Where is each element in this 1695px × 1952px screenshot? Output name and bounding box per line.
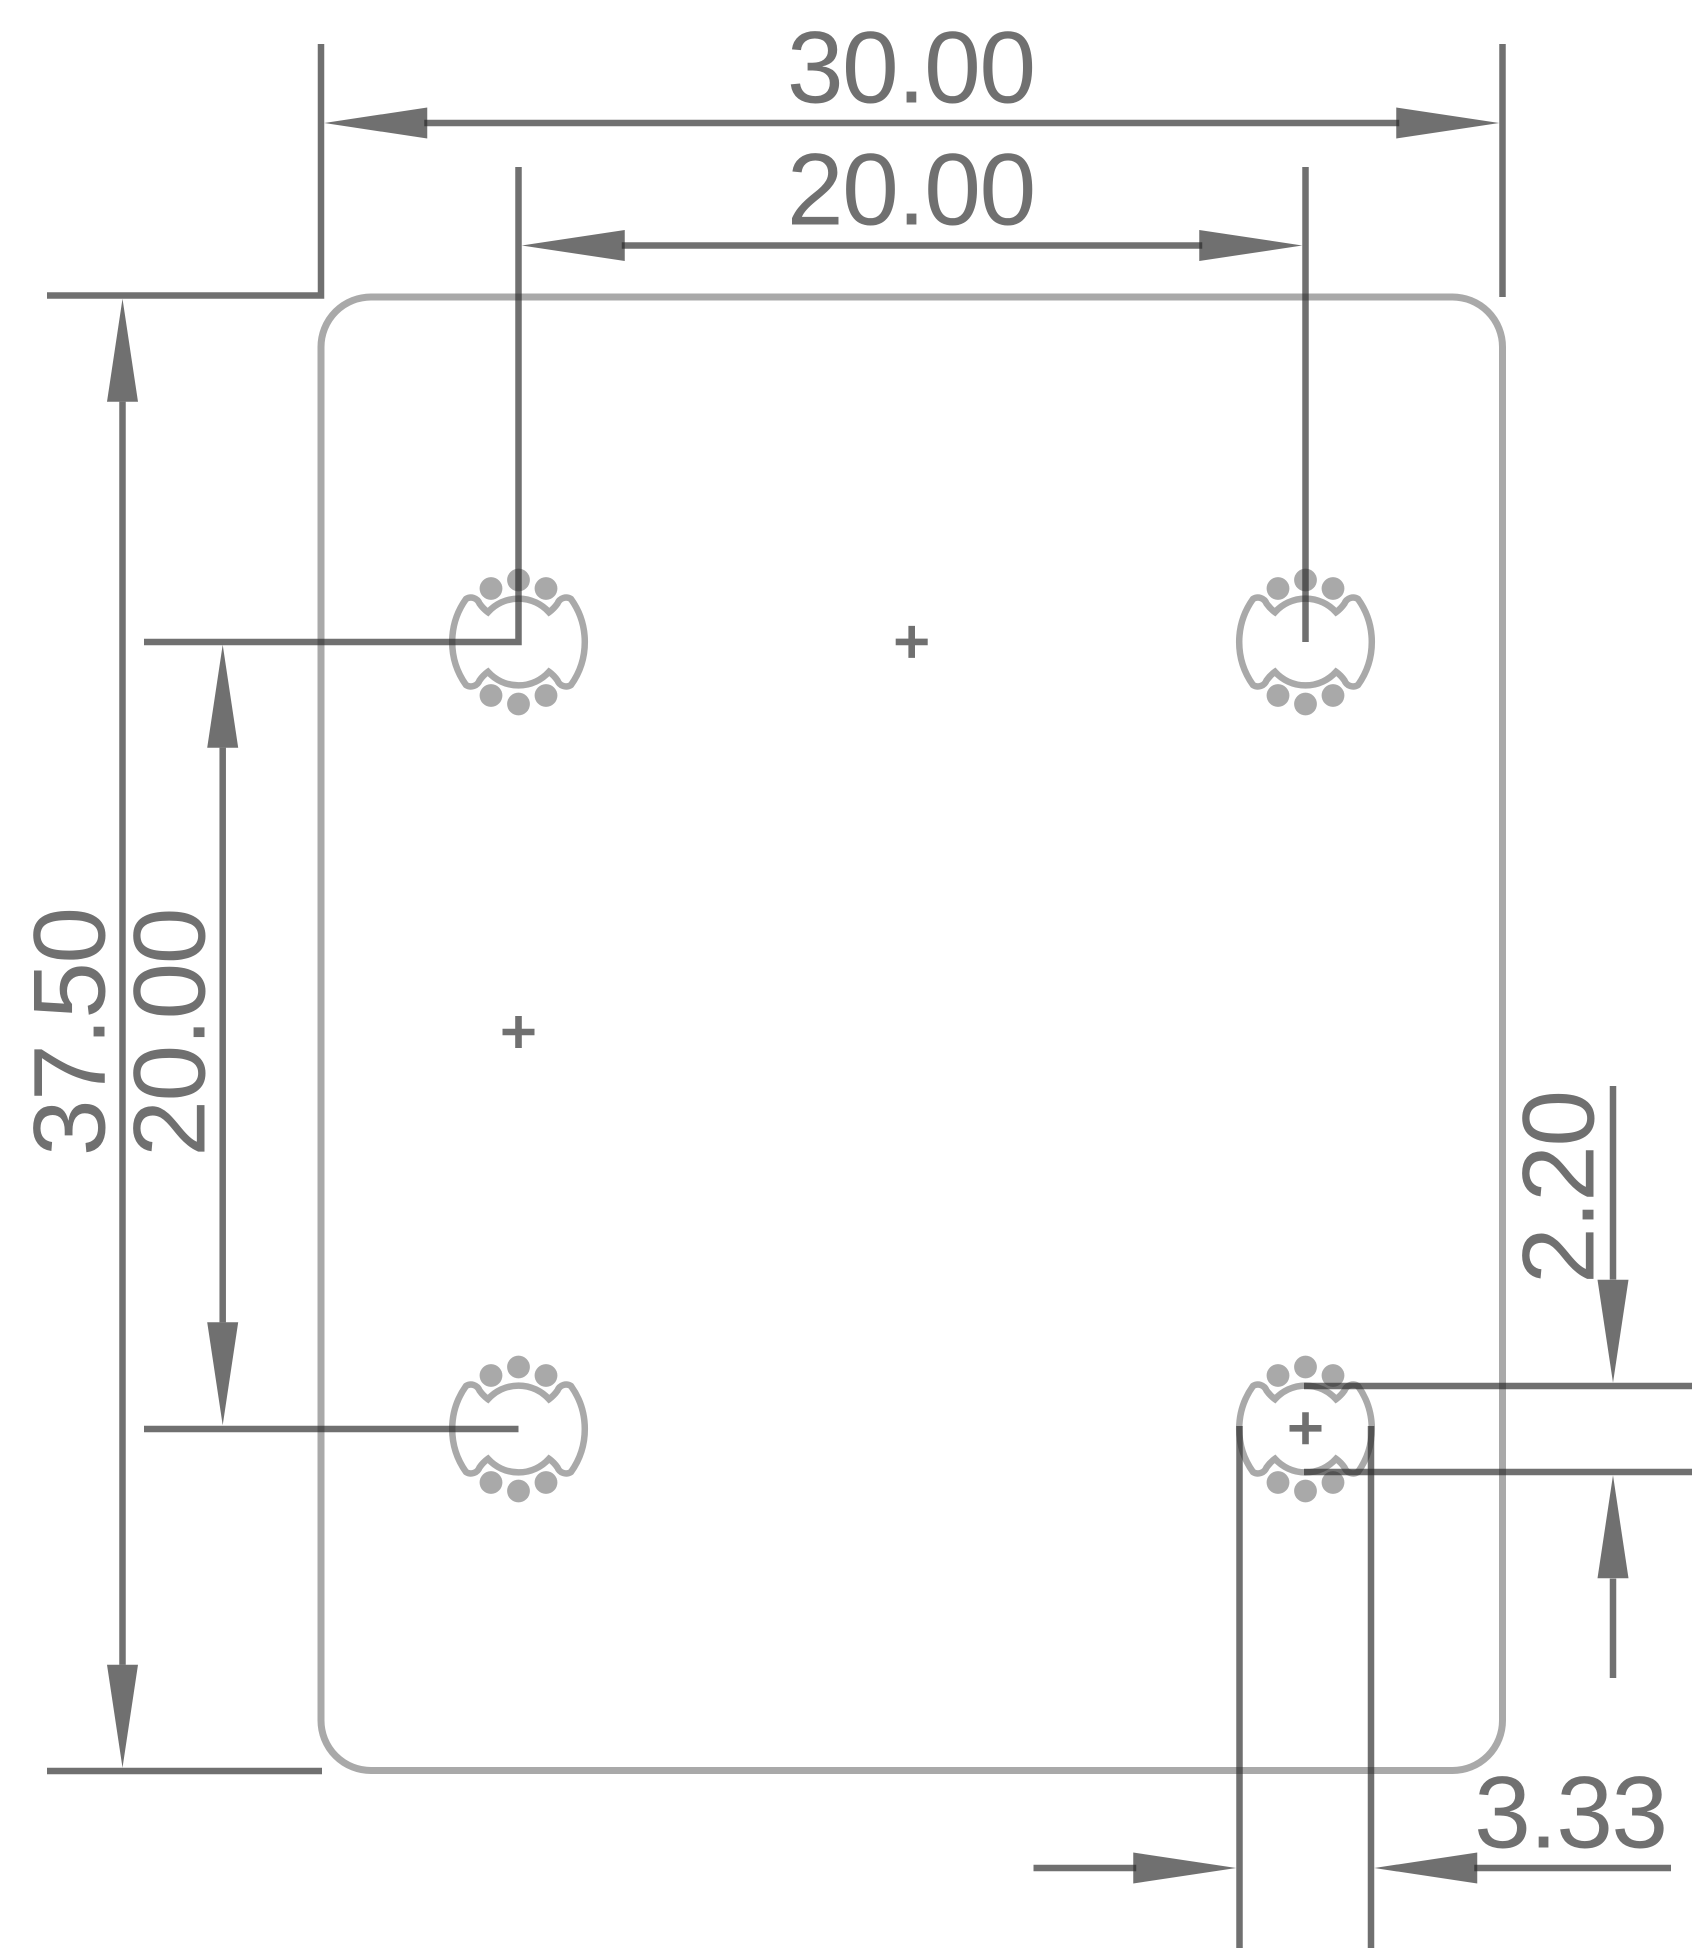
extension line 20.00 top-left (into hole center) bbox=[144, 167, 519, 642]
extension line 20.00 left-bottom bbox=[144, 1426, 519, 1433]
dimension line 3.33 right tail bbox=[1474, 1865, 1671, 1872]
dimension line 2.20 upper tail bbox=[1610, 1086, 1617, 1280]
arrow 3.33 right (points left) bbox=[1374, 1853, 1477, 1884]
extension line 20.00 top-right bbox=[1302, 167, 1309, 642]
svg-text:2.20: 2.20 bbox=[1501, 1091, 1615, 1284]
dimension line 3.33 left tail bbox=[1034, 1865, 1137, 1872]
arrow 20.00 top-left bbox=[522, 230, 625, 261]
svg-text:30.00: 30.00 bbox=[787, 11, 1035, 125]
dimension line 2.20 lower tail bbox=[1610, 1579, 1617, 1678]
dimension line 37.50 bbox=[119, 402, 126, 1665]
arrow 2.20 upper (points down) bbox=[1598, 1280, 1629, 1383]
arrow 20.00 left bottom bbox=[207, 1322, 238, 1425]
arrow 30.00 right bbox=[1396, 108, 1499, 139]
dimension line 30.00 bbox=[424, 120, 1399, 127]
extension line 3.33 left bbox=[1236, 1426, 1243, 1948]
extension line 3.33 right bbox=[1368, 1426, 1375, 1948]
extension line 30.00 left + 37.50 top (L shape) bbox=[47, 44, 321, 296]
extension line 30.00 right bbox=[1499, 44, 1506, 297]
arrow 37.50 top bbox=[107, 299, 138, 402]
hole top-left bbox=[452, 569, 585, 716]
hole bottom-right bbox=[1239, 1356, 1372, 1503]
dimension line 20.00 top bbox=[622, 242, 1203, 249]
arrow 3.33 left (points right) bbox=[1133, 1853, 1236, 1884]
dimension line 20.00 left bbox=[219, 748, 226, 1323]
arrow 30.00 left bbox=[324, 108, 427, 139]
extension line 37.50 bottom bbox=[47, 1768, 322, 1775]
center mark plus top bbox=[896, 626, 928, 658]
svg-text:20.00: 20.00 bbox=[787, 132, 1035, 246]
arrow 20.00 left top bbox=[207, 645, 238, 748]
extension line 2.20 upper bbox=[1304, 1383, 1692, 1390]
hole bottom-left bbox=[452, 1356, 585, 1503]
hole top-right bbox=[1239, 569, 1372, 716]
svg-text:3.33: 3.33 bbox=[1474, 1756, 1667, 1870]
arrow 2.20 lower (points up) bbox=[1598, 1475, 1629, 1578]
center mark plus left bbox=[503, 1016, 535, 1048]
center mark plus hole bottom-right bbox=[1290, 1412, 1322, 1444]
svg-text:20.00: 20.00 bbox=[113, 909, 227, 1157]
plate outline bbox=[321, 297, 1503, 1771]
arrow 37.50 bottom bbox=[107, 1665, 138, 1768]
svg-text:37.50: 37.50 bbox=[13, 908, 127, 1156]
arrow 20.00 top-right bbox=[1199, 230, 1302, 261]
extension line 2.20 lower bbox=[1304, 1469, 1692, 1476]
